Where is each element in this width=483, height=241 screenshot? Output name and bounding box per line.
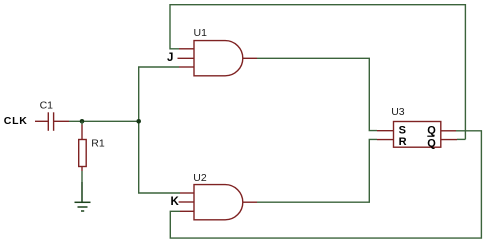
wire: U1 output to U3 S input [257,58,377,130]
wire: U2 output to U3 R input [257,139,377,202]
svg-text:C1: C1 [40,100,54,112]
wire: CLK node horizontal [69,120,139,122]
svg-text:S: S [399,124,406,136]
svg-text:CLK: CLK [4,115,28,127]
node: junction dot at R1 tap [80,119,85,124]
svg-text:Q: Q [427,137,436,149]
AND gate U2 [179,185,257,220]
node: junction dot at CLK riser [136,119,141,124]
svg-text:R: R [399,136,407,148]
svg-text:U2: U2 [193,172,207,184]
capacitor C1 [35,112,69,131]
svg-text:U1: U1 [194,27,208,39]
SR latch U3 [377,122,457,148]
wire: Q feedback (bottom rail from U3 Q right/down/left to U2 bottom input) [170,131,481,238]
svg-text:U3: U3 [391,106,405,118]
wire: CLK riser (U1 bottom input to U2 top input) [139,67,180,193]
AND gate U1 [178,41,258,76]
svg-text:R1: R1 [91,138,105,150]
wire: Q-bar feedback (top rail from U3 Qbar up/left to U1 top input) [170,5,465,140]
resistor R1 [81,121,83,124]
ground [75,182,91,211]
svg-text:Q: Q [427,124,436,136]
svg-text:J: J [167,52,173,64]
svg-text:K: K [171,196,180,208]
wire: Q-bar pin link [457,138,465,140]
